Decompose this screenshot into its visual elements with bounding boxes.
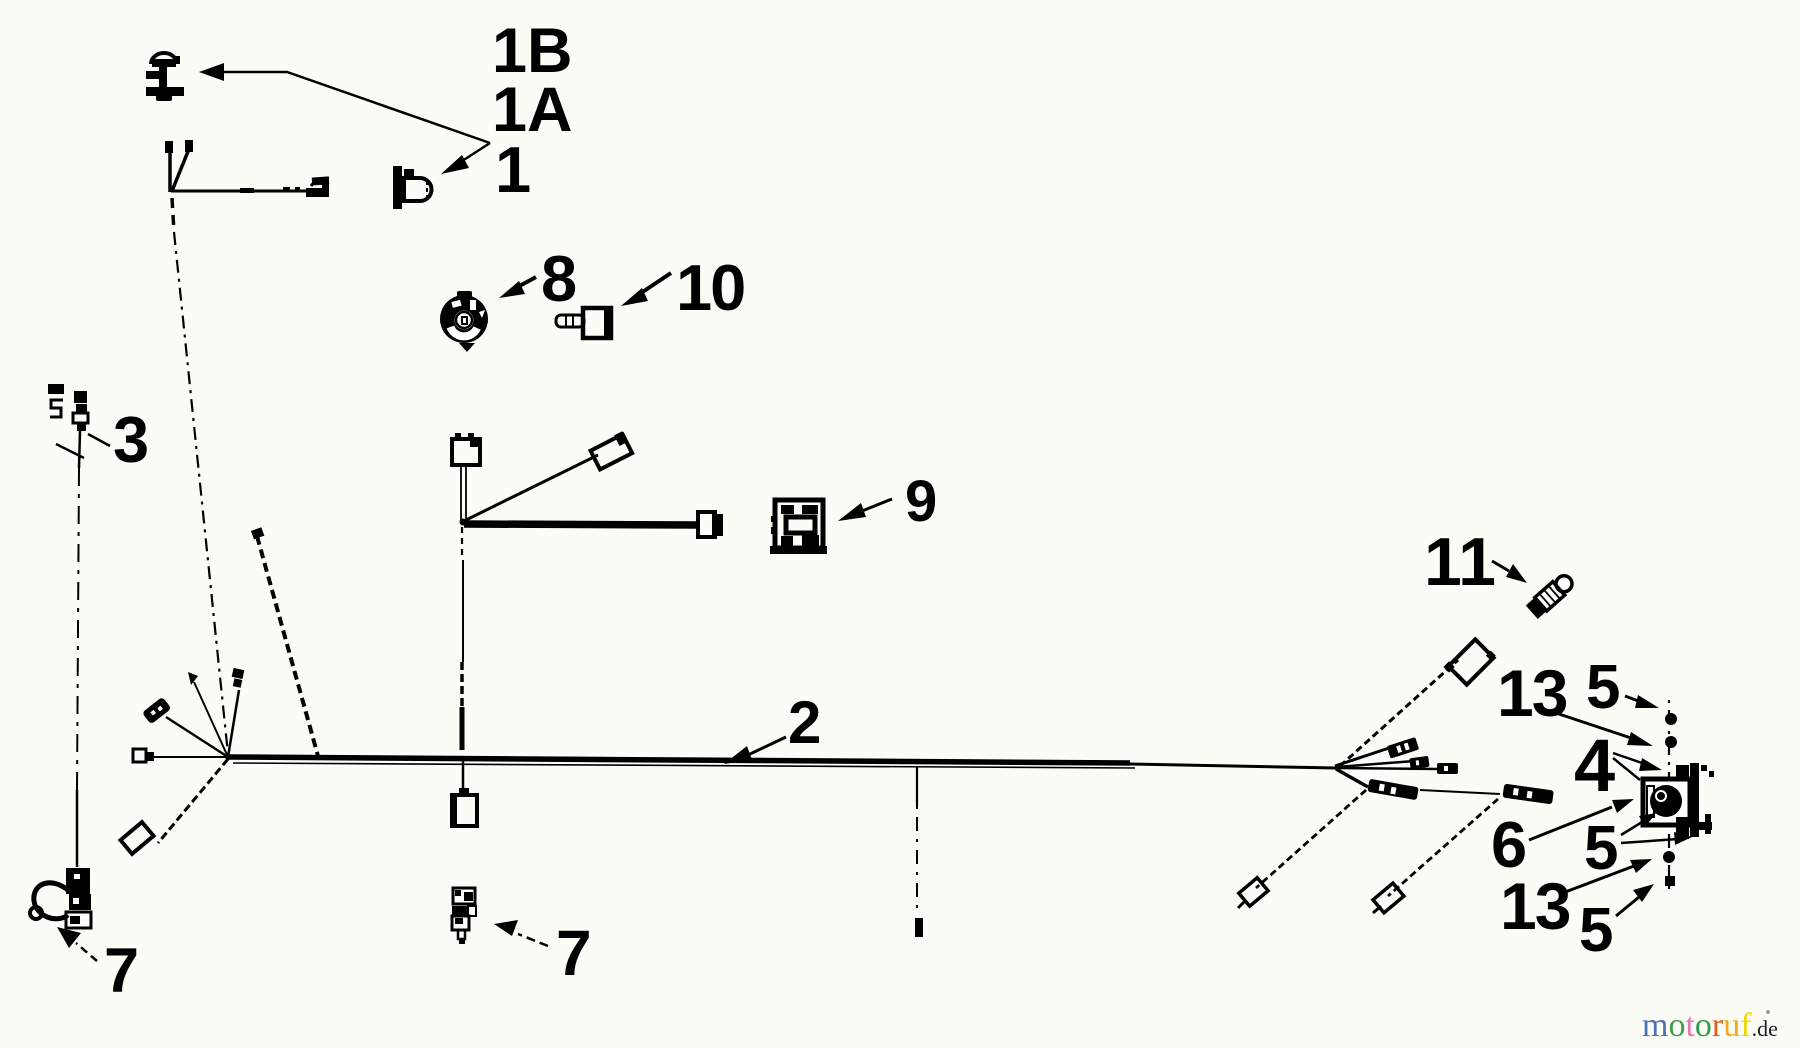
screw 5 top bbox=[1665, 713, 1677, 725]
part 10 key bbox=[556, 308, 613, 338]
part 11 bulb holder bbox=[1526, 572, 1576, 619]
wire part 3 vertical bbox=[79, 431, 80, 468]
svg-text:2: 2 bbox=[788, 689, 821, 756]
leader arrow from label 1 to bulb socket bbox=[441, 143, 490, 174]
wire e continuation bbox=[1420, 790, 1500, 794]
wire V fork top-left bbox=[165, 140, 317, 193]
right hub bbox=[1335, 764, 1341, 770]
arrow from 6 bbox=[1529, 799, 1634, 840]
arrow to part 8 bbox=[499, 277, 536, 298]
connector on diagonal bbox=[589, 431, 633, 469]
center harness: top connector bbox=[452, 433, 480, 465]
terminal inline A bbox=[1367, 779, 1418, 800]
svg-text:9: 9 bbox=[905, 469, 937, 534]
part 7 left connector bbox=[66, 868, 91, 928]
svg-text:3: 3 bbox=[113, 403, 149, 476]
connector lower-left rotated bbox=[120, 822, 153, 854]
arrow to part 10 bbox=[621, 273, 671, 306]
wire double vertical bbox=[461, 466, 466, 521]
wire dashed up-right bbox=[1340, 660, 1458, 766]
part 9 flasher relay bbox=[770, 500, 827, 554]
terminal inline B bbox=[1502, 784, 1553, 805]
part 7 middle connector stack bbox=[452, 888, 476, 944]
leader line label 3 bbox=[88, 434, 110, 446]
wire 2 short bbox=[1337, 761, 1414, 767]
svg-text:5: 5 bbox=[1586, 653, 1620, 722]
svg-text:7: 7 bbox=[104, 936, 139, 1006]
connector small left bbox=[133, 749, 154, 762]
connector hook g bbox=[1373, 883, 1404, 913]
terminal 3 bbox=[1437, 763, 1458, 774]
wire loop left bbox=[34, 883, 68, 919]
terminal 1 bbox=[1387, 737, 1420, 759]
dash-dot screw axis right bbox=[1668, 700, 1670, 892]
part 4 ignition switch bbox=[1643, 763, 1714, 839]
arrow 5 bottom bbox=[1616, 884, 1654, 916]
wire thick dashed diagonal bbox=[257, 536, 318, 756]
wire long dash-dot diagonal to hub bbox=[174, 232, 228, 754]
wire 1 up-right bbox=[1335, 747, 1392, 766]
svg-text:5: 5 bbox=[1579, 896, 1613, 965]
wire left vertical solid bbox=[76, 790, 79, 867]
node junction bbox=[460, 519, 467, 526]
svg-text:10: 10 bbox=[676, 251, 744, 324]
part 1 bulb socket bbox=[393, 166, 432, 209]
main harness wire 2 bbox=[228, 757, 1336, 768]
arrows from 5 middle bbox=[1621, 813, 1692, 845]
svg-text:11: 11 bbox=[1424, 524, 1496, 600]
screw 13 bottom bbox=[1663, 851, 1675, 863]
wire 3 horizontal bbox=[1338, 768, 1440, 769]
node left hub bbox=[225, 754, 231, 760]
arrows from label 4 bbox=[1613, 753, 1662, 780]
wire dash-dot left vertical bbox=[77, 468, 79, 790]
wire vertical below junction bbox=[462, 527, 463, 789]
arrow to part 11 bbox=[1492, 561, 1527, 583]
left hub wires bbox=[152, 682, 239, 843]
arrow 13 bottom bbox=[1560, 859, 1652, 894]
arrow to wire 2 bbox=[724, 737, 786, 764]
arrow to part 7 left bbox=[57, 927, 97, 961]
terminal tip thin bbox=[188, 672, 198, 685]
svg-text:13: 13 bbox=[1497, 656, 1567, 730]
leader arrow from label 1 to lamp bbox=[199, 63, 490, 143]
screw 13 top bbox=[1665, 736, 1677, 748]
lamp 1A/1B (indicator bulb, top left) bbox=[146, 53, 184, 101]
arrow 13 top bbox=[1556, 713, 1653, 746]
connector hook f bbox=[1239, 878, 1268, 906]
svg-text:7: 7 bbox=[556, 917, 592, 989]
part 8 switch face bbox=[440, 291, 488, 352]
wire dash below fork bbox=[172, 198, 174, 232]
wire hook terminal bbox=[283, 176, 329, 197]
arrow to part 7 middle bbox=[494, 920, 548, 946]
part 3 connector group bbox=[48, 384, 88, 431]
connector bottom box bbox=[452, 788, 477, 826]
wire e down-right bbox=[1336, 769, 1368, 787]
wire crossing part 3 bbox=[56, 444, 84, 458]
wire drop at x917 bbox=[916, 766, 918, 916]
wire diagonal to small connector bbox=[464, 455, 598, 521]
wire g dashed down-left bbox=[1388, 799, 1498, 896]
svg-text:13: 13 bbox=[1500, 869, 1570, 943]
screw 5 bottom bbox=[1665, 876, 1675, 886]
terminal tip double bbox=[230, 668, 245, 688]
svg-text:8: 8 bbox=[541, 242, 577, 315]
arrow to part 9 bbox=[838, 499, 892, 521]
wire f dashed down-left bbox=[1256, 790, 1366, 888]
wire thick horizontal bbox=[464, 524, 700, 525]
svg-text:1: 1 bbox=[495, 133, 531, 206]
connector top right rotated bbox=[1443, 635, 1495, 687]
arrow 5 top bbox=[1625, 695, 1659, 708]
svg-text:4: 4 bbox=[1574, 724, 1615, 807]
connector at thick wire end bbox=[698, 512, 723, 537]
connector diamond upper-left bbox=[142, 697, 172, 725]
terminal 2 bbox=[1409, 756, 1429, 770]
